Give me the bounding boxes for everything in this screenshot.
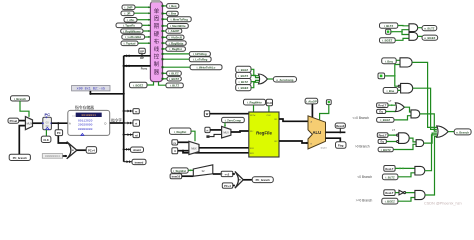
cluster C: OR gate (395, 103, 404, 112)
svg-text:i_Beq: i_Beq (169, 4, 177, 8)
svg-text:i_AluOP: i_AluOP (306, 100, 317, 104)
cluster D: wires to AND2 (393, 138, 416, 149)
svg-text:i_Beq: i_Beq (385, 59, 393, 63)
wire i_RegWName to U1 (143, 30, 150, 32)
wire i_LoDontEd to U1 (145, 36, 151, 38)
svg-text:A: A (69, 122, 71, 126)
node rt field tap (124, 120, 140, 126)
output pin box i_Bne (163, 11, 179, 16)
output pin box i_RegDst (163, 47, 186, 52)
wire ALU flags out (326, 138, 341, 142)
svg-text:PC: PC (45, 112, 51, 117)
svg-text:D: D (105, 122, 107, 126)
pin box i_BGTZ (cmp group) (236, 72, 251, 78)
svg-text:i_BGTZ: i_BGTZ (238, 74, 248, 78)
cluster D: output wire up to OR main (424, 133, 437, 143)
cluster C: node ResLT box (377, 103, 388, 108)
node immed field tap (124, 159, 146, 164)
svg-text:Eq: Eq (379, 110, 383, 114)
svg-text:指令字: 指令字 (111, 118, 122, 123)
wire mux M2 to RegFile W# (231, 131, 249, 132)
svg-text:单: 单 (154, 7, 160, 15)
cluster C: output wire to OR main (420, 114, 437, 131)
cluster D: node ResLT box (377, 133, 388, 138)
svg-text:Result: Result (336, 124, 344, 128)
cluster D: AND gate inverted inputs (397, 133, 410, 144)
wire probe to instruction bus (89, 91, 124, 95)
wire PC to adder A (58, 136, 68, 144)
cluster C: wires OR to AND (394, 107, 411, 120)
wire adder2 to PC_branch out (243, 179, 252, 181)
adder PC+4 (67, 142, 77, 159)
cluster B wires (385, 60, 400, 90)
OR gate zero compare (259, 74, 268, 84)
svg-text:i_AluOP: i_AluOP (168, 29, 179, 33)
svg-text:00000004: 00000004 (45, 154, 60, 158)
wire PC_branch to mux (19, 126, 25, 155)
cluster F: NOT gate (395, 190, 406, 195)
output pin box i_WriteToHiLo (163, 65, 223, 70)
svg-text:i_BLTZ: i_BLTZ (385, 175, 395, 179)
svg-text:rd: rd (135, 133, 138, 137)
svg-text:<0 Branch: <0 Branch (357, 175, 372, 179)
wire i_JAL to U1 (137, 19, 150, 21)
cluster A: pin box i_BLTZ (380, 23, 398, 28)
svg-text:i_Bne: i_Bne (168, 12, 176, 16)
wire CLK to RegFile (268, 106, 270, 112)
output pin box i_HiToReg (163, 52, 211, 57)
wire PC to instruction memory (51, 122, 67, 124)
wire PC clock (45, 130, 47, 136)
svg-text:硬: 硬 (154, 31, 160, 38)
svg-text:i_Bne: i_Bne (386, 89, 394, 93)
wire OP field to U1 (124, 54, 151, 60)
svg-text:i_RegWName: i_RegWName (123, 29, 142, 33)
wires cmp group to OR gate (251, 69, 259, 87)
wire i_ZeroComp to mux M2 select (224, 123, 226, 127)
svg-text:000: 000 (72, 114, 77, 117)
input pin box i_TypeRs (116, 23, 142, 28)
svg-text:PC+4: PC+4 (224, 184, 231, 188)
svg-text:i_BGEZ: i_BGEZ (385, 200, 396, 204)
cluster D wires to NOR (386, 134, 396, 141)
cluster E: pin box i_BLTZ (382, 174, 398, 180)
svg-text:Func: Func (141, 66, 148, 70)
pin box o_BLTZ (422, 26, 437, 31)
svg-text:W/Td: W/Td (250, 115, 256, 117)
wire rs to mux M3 (178, 141, 189, 143)
pin box CLK (RegFile) (266, 99, 272, 106)
node W data pin box (204, 111, 209, 117)
cluster F: output wire up to OR main (425, 137, 437, 195)
svg-text:CLK: CLK (267, 101, 273, 105)
probe instruction value (72, 86, 110, 92)
cluster B: Z pin (378, 73, 385, 79)
bit extender sign (193, 165, 213, 176)
svg-text:期: 期 (154, 23, 159, 30)
svg-text:>=0 Branch: >=0 Branch (356, 199, 373, 203)
constant 00000004 (42, 154, 62, 159)
output pin box i_LoToReg (163, 57, 212, 62)
svg-text:PCsel: PCsel (10, 119, 18, 123)
wire Func field to U1 (123, 65, 151, 71)
register file U2 (249, 112, 279, 157)
svg-text:i_JR: i_JR (124, 12, 130, 16)
svg-text:W: W (206, 112, 209, 116)
pin box i_RegWrite (RegFile) (244, 99, 266, 105)
svg-text:PC+4: PC+4 (88, 149, 95, 153)
svg-text:i_SignExt: i_SignExt (173, 169, 186, 173)
mux M3 read reg (189, 141, 199, 154)
label <0 Branch (357, 175, 372, 179)
cluster E: node ResLT box (384, 166, 395, 172)
pin box i_BLEZ (cmp group) (236, 66, 251, 72)
wire PC+4 to adder2 (233, 185, 235, 187)
svg-text:32: 32 (201, 169, 205, 173)
svg-text:i_BGEZ: i_BGEZ (133, 83, 144, 87)
wire RegFile R2 to ALU B (279, 141, 308, 144)
cluster B: pin box i_Bne (383, 88, 398, 94)
output pin box i_AluSrcB (163, 35, 185, 39)
wire i_Typical to U1 (138, 42, 150, 44)
svg-text:o_BLTZ: o_BLTZ (424, 27, 434, 31)
output pin box i_MemWrite (163, 24, 189, 29)
probe OP (139, 48, 146, 57)
input pin box i_JAL (124, 18, 137, 23)
cluster E wires (395, 168, 415, 177)
svg-text:i_BLEZ: i_BLEZ (380, 118, 390, 122)
svg-text:Eq: Eq (380, 140, 384, 144)
svg-text:shamt: shamt (321, 147, 327, 150)
wire i_SignExt to extender (188, 169, 193, 171)
node Result box (335, 123, 345, 132)
svg-text:MUX: MUX (191, 147, 197, 150)
instruction bus vertical (123, 56, 125, 162)
svg-text:o_ZeroComp: o_ZeroComp (276, 78, 294, 82)
cluster E: output wire up to OR main (425, 135, 437, 171)
svg-text:i_RegWrite: i_RegWrite (247, 101, 262, 105)
svg-text:i_BLTZ: i_BLTZ (170, 84, 180, 88)
output pin box i_BLTZ top (159, 82, 184, 88)
node Flags box (336, 142, 347, 149)
shifter left 2 (220, 171, 233, 176)
wire shamt sel to ALU (320, 105, 329, 120)
pin box i_RegDst (170, 128, 192, 134)
node rs pin box (mux M3) (172, 140, 178, 145)
wire i_JR to U1 (134, 12, 150, 14)
OR gate branch main (437, 126, 449, 137)
svg-text:制: 制 (154, 60, 159, 68)
cluster F: pin box i_BGEZ (382, 198, 398, 204)
wire ALU result out (326, 131, 346, 133)
wire adder to PC+4 pin (77, 149, 86, 151)
pin box PC_branch (left) (9, 154, 30, 160)
wire immed16 to extender (182, 175, 194, 177)
svg-text:20020000: 20020000 (78, 124, 93, 127)
cluster A: wires to outputs (418, 28, 422, 37)
svg-text:PC_branch: PC_branch (256, 178, 271, 182)
svg-text:<<2: <<2 (225, 172, 230, 176)
output pin box i_BGTZ top (163, 77, 182, 81)
svg-text:i_MemWrite: i_MemWrite (170, 24, 186, 28)
output pin box i_AluOP (163, 29, 182, 33)
pin box PC_branch (out) (252, 177, 273, 183)
mux M2 write reg (222, 126, 231, 137)
svg-text:OP: OP (140, 49, 144, 53)
svg-text:ResLT: ResLT (379, 133, 387, 137)
svg-text:i_BLEZ: i_BLEZ (238, 68, 248, 72)
pin box o_BGEZ (422, 35, 438, 40)
svg-text:MUX: MUX (224, 132, 230, 135)
pin marks on U1 right edge (162, 5, 164, 80)
svg-text:ResLT: ResLT (385, 167, 393, 171)
wire i_Branch to PC mux select (20, 101, 29, 117)
output pin box i_MemToReg (163, 17, 192, 22)
svg-text:i_RegDst: i_RegDst (169, 47, 181, 51)
svg-text:PC: PC (57, 131, 61, 135)
svg-text:o_Branch: o_Branch (456, 131, 469, 135)
cluster F: node ResLT box (384, 190, 395, 196)
svg-text:00000000: 00000000 (78, 128, 93, 131)
svg-text:ALU: ALU (312, 130, 321, 135)
node rs field tap (123, 109, 140, 114)
pin box i_ZeroComp (222, 117, 245, 122)
svg-text:00112020: 00112020 (78, 119, 93, 122)
wire rt to mux M3 and RegFile R2# (178, 150, 249, 153)
input pin box i_JR (121, 11, 134, 16)
wire PCsel to mux (19, 120, 26, 122)
cluster C: node Eq box (377, 109, 386, 113)
cluster B: AND gate beq (400, 58, 412, 67)
svg-text:i_Typical: i_Typical (123, 42, 135, 46)
node rt pin box 2 (mux M3) (172, 148, 178, 154)
svg-text:immed: immed (135, 160, 144, 164)
pin box shamt sel (326, 100, 331, 105)
wire OR main to o_Branch (448, 131, 454, 133)
label >0 Branch (355, 144, 370, 148)
node PC+4 box (branch adder) (222, 183, 233, 188)
svg-text:ResLT: ResLT (385, 191, 393, 195)
node immed16 box (170, 174, 182, 179)
svg-text:控: 控 (154, 53, 160, 61)
ALU U3 (308, 116, 327, 150)
cluster B: output wires down to OR (412, 62, 437, 129)
svg-text:i_RegDst: i_RegDst (174, 130, 186, 134)
cluster C: label LT (389, 99, 392, 103)
svg-text:LT: LT (392, 128, 395, 132)
svg-text:<=0 Branch: <=0 Branch (352, 116, 369, 120)
pin box i_SignExt (171, 168, 188, 173)
instruction memory ROM (68, 105, 110, 135)
svg-text:CSDN @Phoenix_hzn: CSDN @Phoenix_hzn (424, 202, 462, 206)
output pin box i_Beq (163, 4, 179, 9)
svg-text:i_LoDontEd: i_LoDontEd (125, 35, 141, 39)
svg-text:线: 线 (154, 45, 160, 53)
cluster B: pin box i_Beq (382, 58, 397, 64)
cluster A: AND gate 1 (409, 24, 418, 32)
wire i_JMP to U1 (135, 6, 150, 8)
pin box o_Branch (454, 129, 471, 135)
svg-text:i_BGTZ: i_BGTZ (169, 77, 179, 81)
control unit U1 (single-cycle hardwired controller) (150, 0, 162, 82)
svg-text:i_BGTZ: i_BGTZ (381, 148, 391, 152)
cluster C wires to OR (386, 104, 396, 111)
cluster A: pin box i_BGEZ (380, 38, 396, 43)
svg-text:CLK: CLK (43, 138, 49, 142)
wire rt to mux M2 (210, 129, 222, 131)
cluster D: node Eq box (378, 139, 386, 143)
svg-text:i_JMP: i_JMP (124, 6, 132, 10)
wire i_TypeRs to U1 (142, 24, 150, 26)
cluster D: AND gate 2 (416, 140, 424, 147)
input pin box i_JMP (122, 5, 135, 10)
svg-text:imm16: imm16 (172, 175, 181, 179)
wire constant to adder B (63, 155, 67, 157)
cluster A wires (391, 26, 409, 41)
output pin box i_BLEZ top (163, 71, 182, 76)
pin box PCsel (8, 118, 19, 123)
cluster A: AND gate 2 (409, 33, 418, 41)
input pin box i_LoDontEd (122, 35, 145, 40)
cluster F wires (398, 193, 415, 202)
svg-text:i_HiToReg: i_HiToReg (193, 52, 207, 56)
cluster B: AND gate bne (inverted input) (398, 83, 413, 93)
svg-text:ResLT: ResLT (378, 104, 386, 108)
node rd field tap (123, 132, 140, 137)
svg-text:MUX: MUX (27, 123, 33, 126)
svg-text:i_BLTZ: i_BLTZ (238, 80, 248, 84)
svg-text:rt: rt (135, 121, 137, 125)
svg-text:o_BGEZ: o_BGEZ (424, 36, 435, 40)
cluster F: AND gate (415, 190, 425, 199)
cluster A: enable pin (386, 29, 391, 34)
pin box PC+4 (86, 147, 96, 154)
svg-text:i_BGEZ: i_BGEZ (238, 86, 249, 90)
wire ROM data out to instruction bus (110, 118, 125, 125)
adder branch target (235, 171, 243, 188)
mux M1 PC source (25, 117, 32, 130)
wire W data to RegFile (210, 113, 249, 115)
wire mux to PC (33, 122, 43, 124)
svg-text:00108011: 00108011 (81, 114, 96, 117)
constant 0 (mux M2) (206, 134, 221, 138)
wire i_RegDst to mux M3 select (191, 131, 195, 141)
svg-text:指令存储器: 指令存储器 (75, 105, 94, 110)
pin box i_AluOP (ALU) (305, 98, 318, 104)
svg-text:i_BLTZ: i_BLTZ (384, 24, 394, 28)
input pin box i_RegWName (121, 29, 143, 33)
svg-text:i_MemToReg: i_MemToReg (170, 18, 188, 22)
svg-text:器: 器 (154, 69, 160, 76)
cluster D: label LT (392, 128, 395, 132)
output pin box i_RegWrite (163, 41, 187, 45)
svg-text:rt: rt (207, 128, 209, 132)
cluster D: pin box i_BGTZ (378, 147, 393, 152)
svg-text:i_AluSrcB: i_AluSrcB (168, 36, 182, 40)
wire extender to shift (213, 173, 221, 175)
svg-text:Flag: Flag (338, 144, 344, 148)
wire RegFile R1 to ALU A (279, 119, 308, 121)
svg-text:i_BGEZ: i_BGEZ (382, 39, 393, 43)
svg-text:i_WriteToHiLo: i_WriteToHiLo (196, 66, 215, 70)
pin box i_BLTZ (cmp group) (236, 79, 251, 85)
pin box CLK (PC) (41, 136, 51, 142)
svg-text:PC_branch: PC_branch (13, 156, 28, 160)
output pin box i_BGEZ left of U1 bottom (130, 82, 154, 88)
cluster E: AND gate (415, 166, 425, 175)
node rt pin box (mux M2 input) (205, 127, 210, 132)
svg-text:i_TypeRs: i_TypeRs (123, 24, 136, 28)
wire i_RegWrite to RegFile (253, 105, 255, 112)
wire mux M3 to RegFile R1# (199, 147, 249, 149)
svg-text:RegFile: RegFile (256, 130, 272, 135)
svg-text:周: 周 (154, 16, 159, 23)
svg-text:i_BLEZ: i_BLEZ (169, 72, 179, 76)
pin box o_ZeroCmp (273, 77, 296, 82)
node shamt field tap (123, 147, 144, 152)
input pin box i_Typical (121, 41, 138, 46)
wire OR to o_ZeroCmp (268, 78, 274, 80)
svg-text:LT: LT (389, 99, 392, 103)
watermark (424, 202, 462, 206)
wire i_AluOP to ALU (311, 104, 313, 118)
svg-text:i_LoToReg: i_LoToReg (193, 58, 208, 62)
svg-text:布: 布 (154, 37, 160, 45)
svg-text:i_Branch: i_Branch (14, 97, 26, 101)
svg-text:CLK: CLK (267, 115, 272, 117)
cluster C: pin box i_BLEZ (377, 118, 394, 123)
wire shift to adder2 (233, 173, 235, 175)
svg-text:>0 Branch: >0 Branch (355, 144, 370, 148)
svg-text:i_ZeroComp: i_ZeroComp (225, 118, 242, 122)
register PC (42, 112, 53, 130)
svg-text:shamt: shamt (133, 148, 141, 152)
svg-text:rt: rt (174, 149, 176, 153)
pin box i_Branch (11, 96, 30, 101)
svg-text:i_JAL: i_JAL (126, 18, 134, 22)
cluster C: AND gate (411, 110, 420, 118)
pin marks on U1 left edge (148, 6, 150, 44)
svg-text:i_RegWrite: i_RegWrite (168, 41, 183, 45)
label >=0 Branch (356, 199, 373, 203)
label <=0 Branch (352, 116, 369, 120)
probe PC value (55, 123, 63, 135)
pin box i_BGEZ (cmp group) (236, 85, 251, 91)
